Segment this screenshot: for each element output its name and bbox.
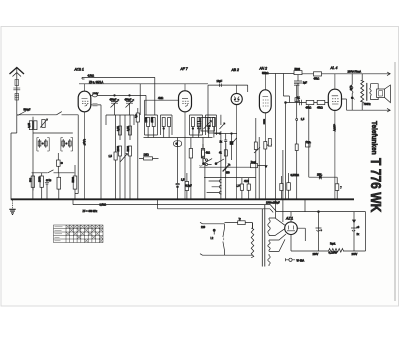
capacitor on screen line: [295, 144, 298, 151]
potentiometer 1M with arrow: [40, 119, 47, 128]
RF coil pair b: [62, 139, 71, 148]
resistor pair 41 b: [244, 178, 250, 199]
svg-text:5000: 5000: [127, 145, 130, 151]
svg-text:W 4BA: W 4BA: [297, 259, 305, 262]
potentiometer arrow column: [120, 154, 128, 163]
capacitor 0,5: [57, 173, 61, 200]
capacitor 5000 block: [294, 68, 308, 103]
resistor on AGC line: [254, 142, 260, 153]
IF transformer can 4: [206, 115, 217, 138]
AB2 frame wires: [208, 80, 248, 133]
dyn connector block: [306, 142, 311, 148]
trimmer capacitor osc: [220, 115, 226, 200]
speaker magnet and cone: [371, 84, 391, 103]
svg-text:45kΩ: 45kΩ: [314, 77, 320, 80]
band filter frame left: [106, 115, 134, 199]
antenna: [10, 68, 25, 115]
svg-text:ZF = 468 kHz: ZF = 468 kHz: [83, 210, 98, 213]
resistor 0,3 det: [189, 138, 192, 200]
coil 0,05 column b: [127, 126, 132, 135]
capacitor on screen feed: [294, 83, 299, 85]
IF transformer can 3: [190, 115, 203, 138]
band switch contacts: [207, 180, 222, 194]
tube ACH1: [78, 84, 91, 200]
capacitor 0,1 block: [57, 153, 63, 173]
svg-text:0,05: 0,05: [117, 126, 120, 131]
svg-text:220: 220: [201, 226, 206, 229]
svg-text:AF 7: AF 7: [180, 67, 188, 71]
wire screen feed right: [296, 85, 298, 199]
svg-text:1500+250pF: 1500+250pF: [266, 201, 280, 204]
switch contact osc a: [203, 159, 213, 165]
capacitor 25 ticks: [319, 175, 321, 179]
heater line b: [158, 199, 271, 209]
output transformer primary: [361, 74, 372, 110]
svg-text:450pF: 450pF: [110, 98, 117, 101]
fuse Tr: [225, 218, 253, 228]
wires secondary to AZ1: [269, 218, 286, 251]
tube AB2: [231, 85, 242, 199]
table chassis: [54, 225, 104, 243]
wire osc row: [199, 164, 267, 200]
svg-text:500pF: 500pF: [24, 108, 31, 111]
capacitor 5000: [72, 165, 77, 199]
wire plate supply 200V: [302, 70, 390, 75]
capacitor 0,05 pair: [28, 121, 37, 130]
tube AL4: [328, 74, 341, 200]
diode can detector: [174, 141, 182, 147]
mains voltage selector: [211, 229, 216, 240]
svg-text:280V: 280V: [313, 253, 319, 256]
resistor right det: [181, 173, 189, 199]
svg-text:700Hz: 700Hz: [364, 103, 372, 106]
resistor 500: [30, 173, 35, 200]
svg-text:2000: 2000: [117, 145, 120, 151]
bracket pair b: [61, 138, 73, 152]
wire grid AL4: [286, 102, 329, 104]
svg-text:0,125W: 0,125W: [329, 252, 338, 255]
svg-text:+240V: +240V: [333, 124, 336, 131]
junction circle screen: [296, 119, 298, 121]
resistor 2000 column: [117, 145, 122, 199]
electrolytic cap 1: [316, 211, 323, 251]
wire grid AF7: [145, 97, 179, 115]
svg-text:45kΩ: 45kΩ: [317, 106, 323, 109]
RF section left vertical: [32, 117, 34, 191]
svg-text:Regl: Regl: [251, 161, 256, 164]
tuning capacitor 450pF b: [125, 98, 134, 115]
choke 0,05: [349, 74, 355, 110]
resistor det b: [201, 138, 204, 165]
svg-text:200V+70mA: 200V+70mA: [348, 70, 362, 73]
wire antenna down to ground bus: [11, 115, 17, 200]
svg-text:0,05: 0,05: [349, 86, 352, 91]
secondary heater winding 2: [268, 254, 270, 266]
switch contact osc b: [215, 159, 224, 165]
component on screen line: [295, 98, 298, 102]
resistor 45k top: [314, 72, 322, 81]
capacitor mixer b: [230, 134, 233, 161]
svg-text:4kΩ: 4kΩ: [206, 152, 211, 155]
wire lower RF row: [32, 172, 75, 174]
resistor 45k grid a: [306, 100, 314, 109]
wire anode bus ACH1: [82, 77, 155, 115]
svg-text:0,1µF: 0,1µF: [82, 139, 85, 146]
switch contacts det: [202, 157, 212, 165]
resistor 0,3: [135, 108, 140, 199]
resistor pair 41 a: [236, 178, 243, 199]
resistor 5000 column: [127, 145, 132, 199]
capacitor 1u electrolytic: [45, 179, 52, 199]
svg-text:Rgul.: Rgul.: [330, 243, 336, 246]
svg-text:450pF: 450pF: [125, 98, 132, 101]
switch contact: [57, 112, 62, 115]
svg-text:Telefunken: Telefunken: [370, 121, 377, 155]
svg-text:4MΩ: 4MΩ: [158, 97, 163, 100]
svg-text:2000: 2000: [39, 176, 42, 182]
wire antenna to RF input: [17, 114, 78, 116]
HT bottom line: [291, 250, 366, 252]
tuning capacitor 450pF a: [110, 98, 119, 115]
capacitor 5n: [176, 138, 192, 200]
wire AH2 top bus: [262, 74, 294, 219]
resistor 45k grid b: [317, 100, 325, 109]
RF coil pair a: [38, 139, 47, 148]
speaker voice coil: [370, 84, 372, 100]
resistor screen divider: [268, 139, 271, 147]
svg-text:AH 2: AH 2: [259, 67, 268, 71]
wire AL4 anode to output: [342, 99, 391, 112]
svg-text:25‰: 25‰: [317, 174, 323, 177]
resistor 1,5 col: [109, 152, 118, 160]
capacitor at ACH1 anode: [91, 94, 146, 115]
ground symbol: [9, 200, 15, 214]
resistor 2000: [39, 173, 44, 200]
switch contact lower: [48, 170, 54, 173]
mains input wires: [200, 222, 225, 255]
tube AZ1: [285, 222, 298, 235]
tube AH2: [259, 74, 271, 200]
svg-text:0,5/2kΩ: 0,5/2kΩ: [291, 174, 300, 177]
wire RF right boundary: [75, 115, 78, 194]
svg-text:0,05: 0,05: [28, 122, 31, 127]
wire mid RF: [33, 132, 73, 134]
switch lever AB2: [231, 138, 237, 145]
IF transformer can 2: [161, 115, 173, 138]
resistor Rgul: [329, 243, 344, 255]
wire AGC down: [285, 103, 287, 200]
page fold line: [394, 62, 396, 301]
svg-text:1,5kΩ: 1,5kΩ: [100, 204, 107, 207]
svg-text:10pF: 10pF: [217, 80, 223, 83]
wire mixer row: [215, 133, 237, 135]
capacitor 0,1 right of ACH1: [91, 104, 101, 199]
svg-text:2000: 2000: [151, 116, 154, 122]
wire screen bus: [79, 77, 208, 115]
svg-text:1000: 1000: [145, 116, 148, 122]
coil 0,05 column a: [117, 126, 122, 135]
svg-text:Tr: Tr: [239, 218, 241, 221]
svg-text:240V: 240V: [352, 253, 358, 256]
resistor 1M horizontal: [139, 154, 159, 160]
output transformer core: [366, 83, 368, 101]
svg-text:5000: 5000: [72, 176, 75, 182]
junction dot NF: [320, 176, 322, 178]
svg-text:T 776 WK: T 776 WK: [367, 158, 384, 213]
antenna band switch: [18, 111, 27, 116]
transformer core: [262, 205, 265, 267]
svg-text:ACh 1: ACh 1: [74, 68, 85, 72]
svg-text:REIM: REIM: [263, 119, 265, 124]
transformer primary winding: [225, 223, 254, 258]
secondary HT winding: [268, 218, 270, 236]
tube AF7: [179, 84, 192, 200]
oscillator coil comb: [197, 117, 202, 134]
svg-text:AZ 1: AZ 1: [285, 217, 293, 221]
junction dot: [285, 102, 287, 104]
capacitor mixer a: [224, 134, 227, 200]
wire bus to supply line: [304, 199, 306, 211]
svg-text:450: 450: [226, 172, 231, 175]
svg-text:1MΩ: 1MΩ: [144, 154, 149, 157]
secondary heater winding 1: [268, 240, 270, 251]
oscillator grid box: [201, 118, 215, 132]
svg-text:AB 2: AB 2: [231, 68, 239, 72]
variable capacitor osc arrow: [223, 164, 231, 174]
wire detector row: [144, 137, 213, 139]
ground bus: [11, 198, 354, 200]
svg-text:41Ω: 41Ω: [244, 180, 249, 183]
hook contacts: [199, 164, 205, 166]
volume potentiometer arrow: [223, 164, 230, 172]
antenna coupling coil L1: [13, 80, 20, 101]
regl pot block: [251, 161, 267, 168]
resistor osc 4k b: [219, 143, 227, 164]
phone jack: [286, 258, 305, 262]
capacitor 7 tone: [335, 184, 342, 191]
svg-text:2µF: 2µF: [303, 81, 308, 84]
resistor 30 right: [287, 173, 291, 199]
bracket pair a: [37, 138, 49, 152]
capacitor 0,1 grid AL4: [297, 97, 302, 106]
svg-text:0,05: 0,05: [127, 126, 130, 131]
wire osc to mixer: [204, 177, 256, 179]
supply line lower: [277, 212, 366, 251]
IF transformer can 1: [145, 115, 158, 138]
AZ1 output loop: [291, 212, 305, 251]
svg-text:500: 500: [30, 177, 33, 182]
wire NF coupling: [309, 105, 337, 200]
wire PSU verticals: [256, 118, 283, 222]
resistor osc 4k a: [202, 144, 211, 163]
svg-text:5000: 5000: [295, 68, 301, 71]
mains switch: [223, 224, 225, 255]
electrolytic cap 2: [351, 212, 360, 251]
diagonal jog: [270, 204, 277, 212]
heater line a: [73, 199, 270, 204]
resistor on AH2 grid: [264, 142, 272, 150]
svg-text:AL 4: AL 4: [330, 66, 338, 70]
